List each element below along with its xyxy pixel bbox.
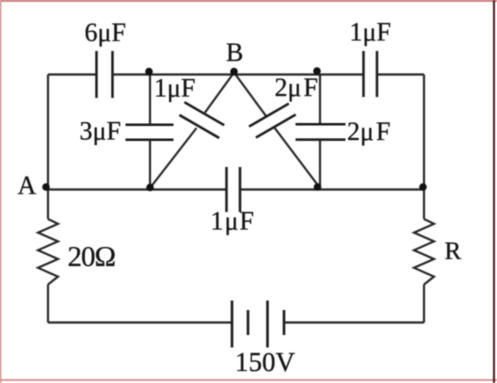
wire top-right segment: [377, 73, 424, 75]
capacitor 2uF diagonal plates: [249, 104, 296, 138]
node junction dot left branch top: [145, 68, 153, 76]
wire A-rail left segment: [46, 188, 227, 190]
node junction dot left branch bottom: [146, 184, 154, 192]
wire bottom-left segment: [48, 321, 232, 323]
node A dot: [42, 183, 50, 191]
capacitor 1uF diagonal plates: [179, 102, 224, 138]
svg-text:20Ω: 20Ω: [68, 241, 116, 273]
wire bottom-right segment: [284, 321, 424, 323]
svg-text:1μF: 1μF: [211, 207, 255, 236]
wire diagonal left cap to A-rail: [150, 128, 197, 188]
resistor R: [414, 219, 434, 285]
capacitor 3uF plates: [126, 125, 174, 140]
wire diagonal B to right cap: [234, 73, 266, 117]
wire left branch lower: [149, 140, 151, 190]
svg-text:150V: 150V: [235, 347, 296, 377]
wire top-middle segment: [113, 73, 364, 75]
node junction dot right rail: [419, 183, 427, 191]
svg-text:2μF: 2μF: [275, 73, 318, 102]
wire A-rail right segment: [240, 188, 424, 190]
wire right vertical upper: [423, 75, 425, 220]
svg-text:1μF: 1μF: [154, 74, 195, 103]
node junction dot right branch top: [313, 67, 321, 75]
wire right branch lower: [319, 140, 321, 190]
svg-text:1μF: 1μF: [350, 18, 391, 47]
capacitor 1uF top-right plates: [364, 51, 378, 97]
svg-text:B: B: [226, 38, 243, 67]
wire left vertical upper: [47, 75, 49, 220]
wire diagonal B to left cap: [205, 73, 234, 113]
capacitor 1uF bottom plates: [227, 167, 241, 212]
svg-text:2μF: 2μF: [347, 117, 390, 146]
wire diagonal right cap to A-rail: [275, 128, 320, 188]
capacitor 6uF plates: [97, 51, 113, 98]
node junction dot right branch bottom: [314, 183, 322, 191]
resistor 20ohm: [38, 219, 58, 285]
node B dot: [230, 68, 238, 76]
wire left branch upper: [149, 75, 151, 125]
svg-text:3μF: 3μF: [80, 117, 121, 146]
svg-text:A: A: [18, 171, 37, 200]
svg-text:R: R: [445, 238, 462, 265]
battery 150V plates: [232, 301, 284, 348]
wire right branch upper: [319, 75, 321, 125]
capacitor 2uF right plates: [296, 124, 346, 139]
wire top-left segment: [48, 73, 97, 75]
wire right vertical lower: [423, 285, 425, 323]
svg-text:6μF: 6μF: [85, 18, 126, 47]
wire left vertical lower: [47, 285, 49, 323]
